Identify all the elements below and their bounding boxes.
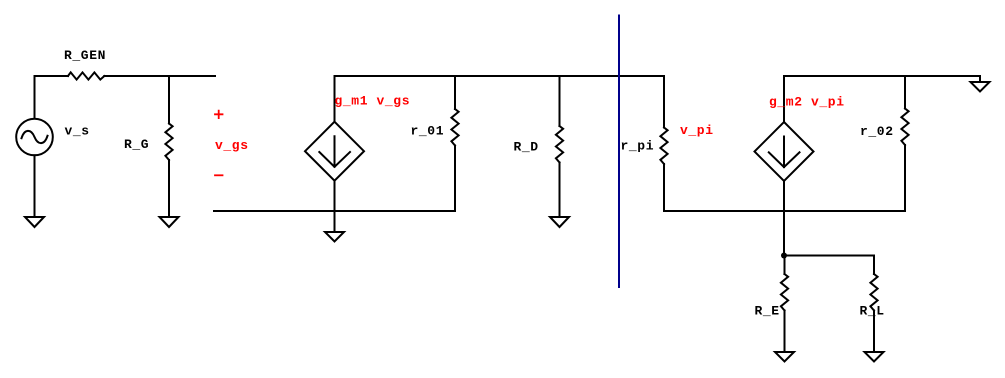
wire g_m2 bottom lead	[783, 181, 785, 256]
wire v_s bottom lead	[34, 155, 36, 217]
dependent source g_m1 arrow	[319, 136, 350, 167]
resistor r_01	[451, 109, 458, 146]
wire bottom-right rail	[664, 210, 905, 212]
wire R_L bottom lead	[873, 311, 875, 353]
resistor R_G	[165, 124, 172, 161]
resistor R_D	[556, 126, 563, 163]
resistor r_pi	[660, 128, 667, 165]
label minus sign	[215, 174, 223, 176]
svg-text:R_GEN: R_GEN	[64, 48, 106, 63]
voltage source v_s circle	[16, 119, 53, 156]
svg-text:v_gs: v_gs	[215, 138, 249, 153]
dependent source g_m2 diamond	[755, 122, 814, 181]
wire g_m1 bottom lead	[334, 181, 336, 232]
wire r_01 bottom lead	[454, 146, 456, 212]
svg-text:r_01: r_01	[411, 123, 445, 138]
ground below g_m1	[325, 232, 344, 242]
wire bottom-left rail	[214, 210, 455, 212]
svg-text:R_L: R_L	[860, 304, 885, 319]
wire r_pi bottom lead	[663, 164, 665, 211]
svg-text:R_E: R_E	[755, 304, 780, 319]
resistor R_E	[781, 274, 788, 311]
wire r_02 top lead	[904, 76, 906, 109]
wire R_E bottom lead	[784, 311, 786, 353]
svg-text:g_m1 v_gs: g_m1 v_gs	[335, 93, 411, 108]
resistor R_GEN	[68, 72, 104, 79]
wire r_01 top lead	[454, 76, 456, 109]
wire emitter node to R_L	[784, 256, 874, 275]
wire top-right rail	[784, 75, 980, 77]
wire top-middle rail	[335, 75, 665, 77]
svg-text:g_m2 v_pi: g_m2 v_pi	[769, 94, 845, 109]
svg-text:v_s: v_s	[65, 123, 90, 138]
svg-text:r_pi: r_pi	[621, 138, 655, 153]
ground below v_s	[25, 217, 44, 227]
node junction dot	[781, 253, 787, 259]
separator dashed line	[618, 16, 620, 288]
wire top-right ground stub	[979, 76, 981, 82]
wire top-left rail right segment	[104, 75, 215, 77]
dependent source g_m1 diamond	[305, 122, 364, 181]
dependent source g_m2 arrow	[769, 137, 800, 168]
svg-text:R_G: R_G	[124, 137, 149, 152]
svg-text:R_D: R_D	[514, 140, 539, 155]
ground below R_D	[550, 217, 569, 227]
svg-text:r_02: r_02	[860, 124, 894, 139]
resistor R_L	[870, 274, 877, 311]
label plus sign	[215, 111, 223, 119]
wire R_E top lead	[784, 256, 786, 275]
ground below R_E	[775, 352, 794, 362]
ground below R_L	[865, 352, 884, 362]
wire R_G top lead	[168, 76, 170, 124]
wire R_G bottom lead	[168, 160, 170, 217]
wire r_pi top lead	[663, 76, 665, 128]
wire R_D bottom lead	[559, 163, 561, 218]
wire top-left rail left segment	[35, 76, 69, 119]
ground below R_G	[160, 217, 179, 227]
wire g_m1 top lead	[334, 76, 336, 122]
svg-text:v_pi: v_pi	[680, 123, 714, 138]
voltage source v_s sine	[22, 131, 48, 143]
resistor r_02	[901, 109, 908, 146]
wire R_D top lead	[559, 76, 561, 126]
wire r_02 bottom lead	[904, 145, 906, 211]
ground top-right	[971, 82, 990, 92]
wire g_m2 top lead	[783, 76, 785, 122]
